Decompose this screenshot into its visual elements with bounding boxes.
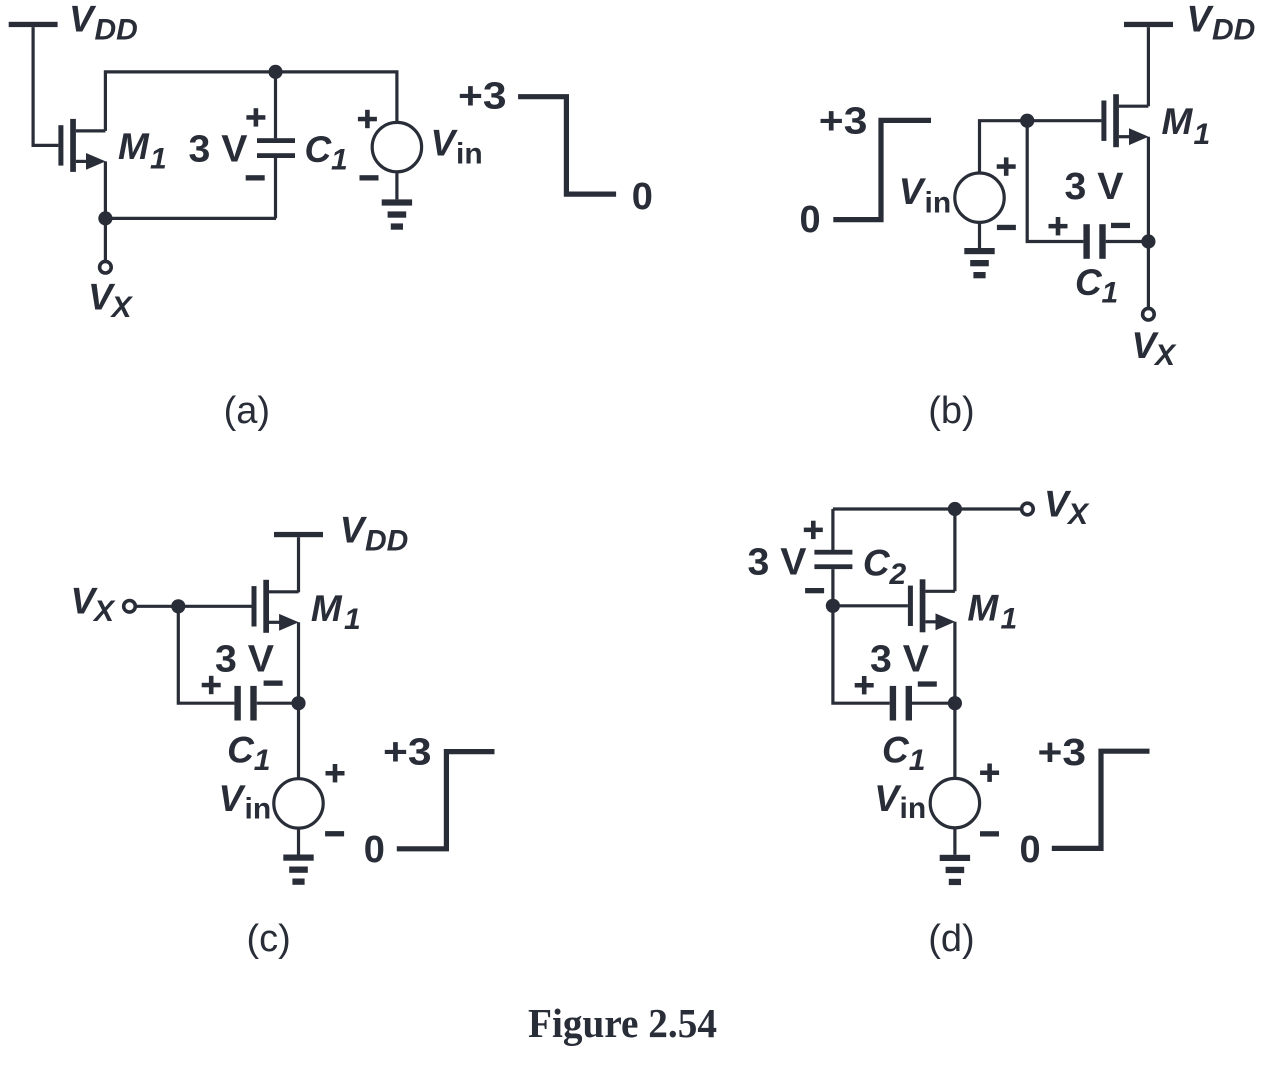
wire source of M1 to node (d) xyxy=(953,622,956,703)
svg-text:in: in xyxy=(925,187,952,220)
svg-text:X: X xyxy=(92,595,116,628)
wire junction to gate of M1 (d) xyxy=(833,604,908,607)
svg-text:3 V: 3 V xyxy=(870,639,930,681)
label 0 (d) xyxy=(1020,829,1041,871)
transistor M1 (b) xyxy=(1101,94,1148,147)
label VDD (b) xyxy=(1187,0,1256,47)
capacitor C1 (d) xyxy=(890,686,955,721)
svg-text:X: X xyxy=(1066,498,1090,531)
junction dot gate wire (c) xyxy=(171,599,185,613)
svg-text:1: 1 xyxy=(1194,118,1211,151)
wire node to Vin (d) xyxy=(953,703,956,778)
node dot source-C1 (b) xyxy=(1141,234,1155,248)
label C1 (c) xyxy=(227,730,270,778)
wire node to VX terminal (a) xyxy=(104,218,107,261)
svg-text:Figure 2.54: Figure 2.54 xyxy=(528,1000,717,1046)
svg-text:1: 1 xyxy=(331,144,348,177)
label 0 (c) xyxy=(364,829,385,871)
capacitor C2 (d) xyxy=(814,550,852,606)
svg-text:X: X xyxy=(110,291,134,324)
wire VDD to drain of M1 (c) xyxy=(297,537,300,592)
wire VX to gate of M1 (c) xyxy=(136,605,252,608)
label - polarity of Vin (b) xyxy=(997,225,1016,230)
svg-text:+3: +3 xyxy=(1038,732,1087,774)
svg-text:V: V xyxy=(340,510,368,551)
junction dot gate wire (b) xyxy=(1020,114,1034,128)
wire drain to top rail to Vin (a) xyxy=(105,72,397,131)
svg-text:3 V: 3 V xyxy=(1065,166,1125,208)
label VX (b) xyxy=(1132,325,1178,372)
label - polarity of C1 (d) xyxy=(918,681,937,686)
voltage source Vin (c) xyxy=(274,779,323,828)
label Vin (c) xyxy=(219,778,272,826)
label +3 (c) xyxy=(383,731,432,773)
ground (c) xyxy=(283,855,313,885)
svg-text:+3: +3 xyxy=(458,75,507,117)
label VX (c) xyxy=(71,581,117,629)
voltage source Vin (a) xyxy=(372,122,421,171)
svg-text:C: C xyxy=(305,129,333,170)
label M1 (b) xyxy=(1162,101,1211,151)
svg-text:C: C xyxy=(227,730,255,771)
svg-text:0: 0 xyxy=(632,176,653,218)
terminal VX (c) xyxy=(124,601,136,613)
svg-text:3 V: 3 V xyxy=(748,542,808,584)
label - polarity of C1 (a) xyxy=(246,175,265,180)
svg-text:1: 1 xyxy=(254,744,271,777)
value label 3 V for C1 (d) xyxy=(870,639,930,681)
step waveform Vin (b) xyxy=(833,120,931,219)
label + polarity of Vin (b) xyxy=(997,157,1016,175)
label + polarity of Vin (c) xyxy=(326,764,345,782)
label + polarity of C1 (a) xyxy=(246,108,265,126)
label + polarity of C1 (c) xyxy=(202,676,221,694)
step waveform Vin (d) xyxy=(1052,751,1150,848)
label Vin (a) xyxy=(431,123,483,171)
wire source of M1 to node (a) xyxy=(104,161,107,218)
step waveform Vin (c) xyxy=(397,752,495,849)
power VDD supply bar (c) xyxy=(274,532,323,537)
capacitor C1 (a) xyxy=(257,72,295,219)
label +3 (d) xyxy=(1038,732,1087,774)
value label 3 V (a) xyxy=(189,129,249,171)
wire source of M1 to VX (b) xyxy=(1147,137,1150,308)
svg-text:3 V: 3 V xyxy=(215,638,275,680)
svg-text:+3: +3 xyxy=(383,731,432,773)
label - polarity of C1 (b) xyxy=(1111,223,1130,228)
svg-text:(c): (c) xyxy=(247,918,291,960)
label +3 (a) xyxy=(458,75,507,117)
wire junction to C1 left (b) xyxy=(1027,121,1083,242)
value label 3 V for C2 (d) xyxy=(748,542,808,584)
svg-text:(b): (b) xyxy=(928,390,974,432)
terminal VX (a) xyxy=(100,261,112,273)
voltage source Vin (d) xyxy=(930,778,979,827)
node dot source-C1-Vin (d) xyxy=(948,696,962,710)
label +3 (b) xyxy=(819,100,868,142)
voltage source Vin (b) xyxy=(955,173,1004,222)
label 0 (a) xyxy=(632,176,653,218)
transistor M1 (c) xyxy=(252,580,299,633)
svg-text:0: 0 xyxy=(1020,829,1041,871)
svg-text:in: in xyxy=(245,793,272,826)
step waveform Vin (a) xyxy=(518,97,616,194)
label C2 (d) xyxy=(863,542,907,591)
wire junction to C1 left (d) xyxy=(833,606,890,703)
svg-text:V: V xyxy=(874,778,902,819)
svg-text:1: 1 xyxy=(909,744,926,777)
caption (c) xyxy=(247,918,291,960)
svg-text:M: M xyxy=(118,126,150,167)
caption (d) xyxy=(928,918,974,960)
label VDD (a) xyxy=(69,0,138,47)
label VX (a) xyxy=(88,277,134,325)
ground (b) xyxy=(964,248,994,278)
wire Vin to ground (c) xyxy=(297,828,300,854)
svg-text:2: 2 xyxy=(889,558,907,591)
svg-text:V: V xyxy=(899,171,927,212)
label M1 (c) xyxy=(311,588,361,636)
label - polarity of Vin (a) xyxy=(360,175,379,180)
wire Vin to ground (a) xyxy=(395,172,398,200)
svg-text:M: M xyxy=(311,588,343,629)
svg-text:DD: DD xyxy=(365,525,408,558)
svg-text:1: 1 xyxy=(1001,603,1018,636)
wire drain of M1 to top rail (d) xyxy=(953,509,956,591)
svg-text:in: in xyxy=(900,792,927,825)
wire VDD to drain of M1 (b) xyxy=(1147,27,1150,106)
node dot source-C1-Vin (c) xyxy=(291,696,305,710)
capacitor C1 (c) xyxy=(234,686,298,721)
svg-text:C: C xyxy=(1075,262,1103,303)
label VDD (c) xyxy=(340,510,409,558)
caption (b) xyxy=(928,390,974,432)
svg-text:V: V xyxy=(1187,0,1215,40)
ground (d) xyxy=(940,855,970,885)
wire Vin to ground (d) xyxy=(953,828,956,855)
terminal VX (d) xyxy=(1022,503,1034,515)
svg-text:1: 1 xyxy=(344,603,361,636)
label VX (d) xyxy=(1044,484,1090,532)
wire VDD to gate of M1 (a) xyxy=(33,27,58,145)
wire Vin to ground (b) xyxy=(978,222,981,248)
junction dot gate wire (d) xyxy=(826,599,840,613)
svg-text:0: 0 xyxy=(364,829,385,871)
value label 3 V (c) xyxy=(215,638,275,680)
label M1 (a) xyxy=(118,126,167,175)
svg-text:X: X xyxy=(1153,339,1177,372)
figure caption Figure 2.54 xyxy=(528,1000,717,1046)
value label 3 V (b) xyxy=(1065,166,1125,208)
wire VX top rail (d) xyxy=(833,507,1021,510)
svg-text:V: V xyxy=(69,0,97,40)
svg-text:DD: DD xyxy=(95,14,138,47)
label - polarity of C2 (d) xyxy=(805,588,824,593)
label + polarity of C1 (d) xyxy=(855,676,874,694)
svg-text:(d): (d) xyxy=(928,918,974,960)
svg-text:V: V xyxy=(219,778,247,819)
node dot source-C1-VX (a) xyxy=(98,211,112,225)
power VDD supply bar (b) xyxy=(1124,22,1173,27)
wire gate of M1 to Vin top (b) xyxy=(980,121,1102,173)
svg-text:DD: DD xyxy=(1212,14,1255,47)
svg-text:M: M xyxy=(1162,101,1194,142)
label C1 (d) xyxy=(882,730,925,778)
svg-text:in: in xyxy=(456,138,483,171)
label C1 (a) xyxy=(305,129,348,177)
label + polarity of Vin (a) xyxy=(358,110,377,128)
svg-text:1: 1 xyxy=(150,143,167,176)
svg-text:V: V xyxy=(431,123,459,164)
transistor M1 (d) xyxy=(908,579,955,632)
label - polarity of C1 (c) xyxy=(264,681,283,686)
power VDD supply bar (a) xyxy=(9,22,58,27)
ground (a) xyxy=(382,199,412,229)
label Vin (d) xyxy=(874,778,926,825)
svg-text:C: C xyxy=(863,542,891,583)
label + polarity of C1 (b) xyxy=(1049,217,1068,235)
label Vin (b) xyxy=(899,171,951,219)
svg-text:1: 1 xyxy=(1102,277,1119,310)
caption (a) xyxy=(224,390,270,432)
label 0 (b) xyxy=(800,199,821,241)
terminal VX (b) xyxy=(1143,308,1155,320)
svg-text:0: 0 xyxy=(800,199,821,241)
wire node to Vin (c) xyxy=(297,703,300,779)
wire node to C1 bottom (a) xyxy=(105,217,276,220)
svg-text:+3: +3 xyxy=(819,100,868,142)
junction dot top rail at C1 (a) xyxy=(268,65,282,79)
svg-text:C: C xyxy=(882,730,910,771)
transistor M1 (a) xyxy=(58,119,105,172)
wire rail to C2 top (d) xyxy=(831,509,834,550)
junction dot top rail (d) xyxy=(948,502,962,516)
svg-text:3 V: 3 V xyxy=(189,129,249,171)
label - polarity of Vin (c) xyxy=(325,831,344,836)
wire junction to C1 left (c) xyxy=(178,606,234,703)
svg-text:(a): (a) xyxy=(224,390,270,432)
label M1 (d) xyxy=(967,587,1017,635)
label + polarity of C2 (d) xyxy=(804,521,823,539)
label C1 (b) xyxy=(1075,262,1118,310)
wire source of M1 to node (c) xyxy=(297,622,300,703)
capacitor C1 (b) xyxy=(1083,224,1148,259)
label + polarity of Vin (d) xyxy=(980,764,999,782)
label - polarity of Vin (d) xyxy=(980,831,999,836)
svg-text:M: M xyxy=(967,587,999,628)
